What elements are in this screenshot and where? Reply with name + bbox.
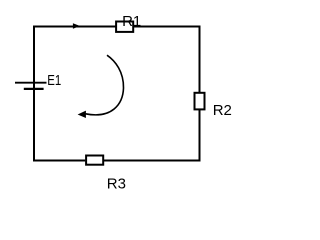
svg-text:R1: R1 <box>122 13 141 30</box>
wire: top-right segment + right upper segment <box>134 27 200 93</box>
battery E1 <box>15 83 47 89</box>
current direction arrow on top wire <box>73 23 80 29</box>
svg-text:E1: E1 <box>47 72 61 89</box>
resistor R1 <box>116 22 133 32</box>
wire: left side + top-left segment <box>34 27 116 162</box>
wire: right lower segment + bottom-right segment <box>104 110 200 161</box>
resistor R3 <box>86 156 103 165</box>
wire: bottom-left segment <box>33 160 85 162</box>
svg-text:R3: R3 <box>107 175 126 192</box>
current loop arrow (curved) <box>78 55 124 118</box>
svg-text:R2: R2 <box>213 102 232 119</box>
resistor R2 <box>195 93 205 110</box>
